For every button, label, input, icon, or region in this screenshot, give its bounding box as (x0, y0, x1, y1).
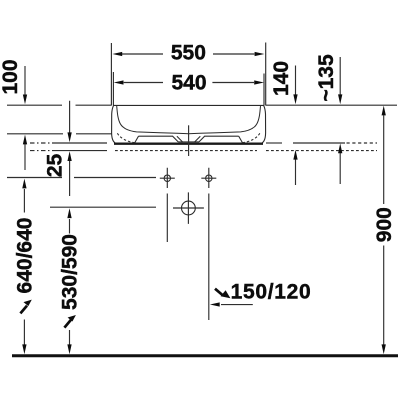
svg-text:540: 540 (171, 72, 206, 95)
svg-text:100: 100 (0, 59, 22, 94)
svg-text:530/590: 530/590 (59, 234, 82, 310)
svg-text:150/120: 150/120 (231, 281, 312, 304)
svg-text:900: 900 (373, 207, 396, 242)
svg-text:640/640: 640/640 (14, 218, 37, 294)
svg-text:550: 550 (171, 42, 206, 65)
svg-text:~135: ~135 (315, 54, 338, 102)
svg-text:140: 140 (270, 61, 293, 96)
svg-text:25: 25 (44, 154, 67, 178)
